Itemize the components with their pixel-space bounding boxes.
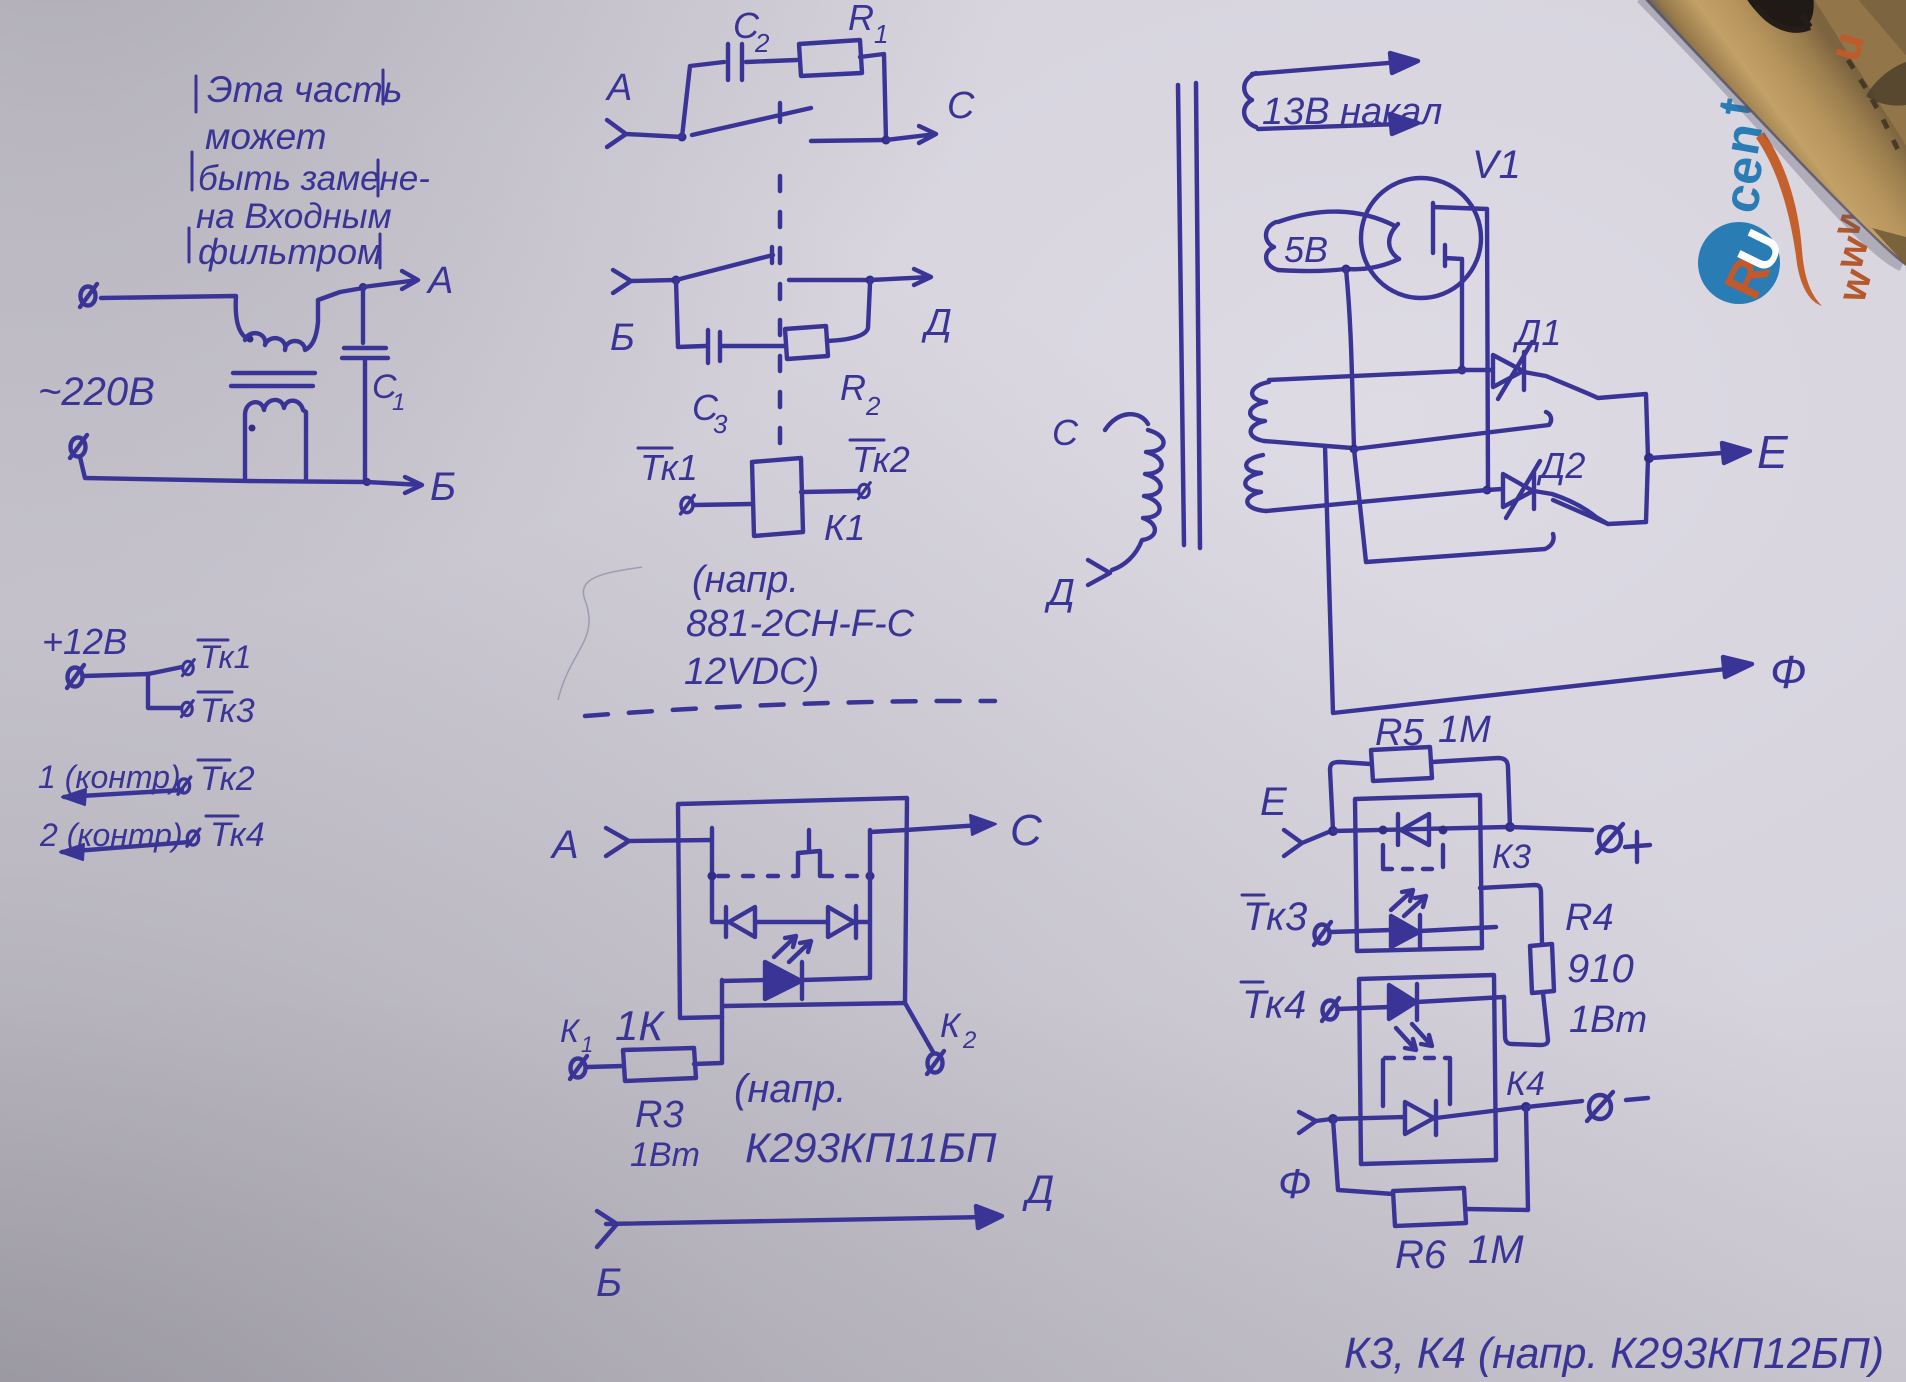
- svg-text:910: 910: [1567, 947, 1634, 991]
- svg-text:V1: V1: [1472, 143, 1521, 187]
- svg-text:Тк1: Тк1: [200, 639, 251, 675]
- svg-text:881-2CH-F-C: 881-2CH-F-C: [686, 603, 915, 645]
- svg-text:1К: 1К: [615, 1002, 665, 1049]
- svg-text:Тк2: Тк2: [200, 760, 255, 798]
- svg-text:Тк3: Тк3: [1243, 895, 1307, 939]
- svg-text:С: С: [1052, 412, 1079, 453]
- svg-text:2: 2: [962, 1027, 976, 1054]
- svg-text:Б: Б: [596, 1261, 622, 1305]
- svg-text:К293КП11БП: К293КП11БП: [745, 1124, 997, 1171]
- svg-text:А: А: [605, 67, 632, 109]
- svg-text:А: А: [550, 823, 579, 867]
- svg-text:2: 2: [865, 391, 881, 421]
- svg-text:12VDC): 12VDC): [684, 651, 819, 693]
- svg-text:Б: Б: [430, 465, 456, 509]
- svg-text:К1: К1: [824, 507, 865, 548]
- svg-text:R: R: [840, 367, 866, 408]
- svg-text:1Вт: 1Вт: [630, 1136, 700, 1174]
- svg-text:2: 2: [754, 28, 770, 58]
- svg-text:быть замене-: быть замене-: [198, 159, 430, 198]
- svg-text:Ф: Ф: [1770, 646, 1807, 698]
- svg-text:К: К: [560, 1013, 581, 1049]
- svg-text:Б: Б: [610, 317, 635, 359]
- svg-text:1: 1: [581, 1032, 593, 1057]
- svg-text:(напр.: (напр.: [692, 559, 799, 601]
- svg-text:Е: Е: [1757, 426, 1789, 478]
- svg-text:3: 3: [713, 409, 728, 439]
- svg-text:Д2: Д2: [1536, 445, 1585, 486]
- svg-text:может: может: [205, 116, 327, 157]
- svg-text:С: С: [947, 85, 975, 127]
- svg-text:5В: 5В: [1284, 229, 1328, 270]
- svg-text:Д: Д: [921, 302, 952, 344]
- svg-text:R6: R6: [1395, 1233, 1447, 1277]
- svg-text:К3: К3: [1492, 838, 1531, 876]
- svg-text:К4: К4: [1506, 1065, 1545, 1103]
- svg-text:1: 1: [874, 19, 888, 49]
- svg-text:R3: R3: [635, 1094, 684, 1136]
- svg-text:фильтром: фильтром: [198, 231, 382, 272]
- svg-text:К: К: [940, 1007, 962, 1045]
- svg-text:Тк3: Тк3: [200, 692, 255, 730]
- svg-text:+12В: +12В: [42, 621, 127, 662]
- svg-text:Тк4: Тк4: [210, 816, 265, 854]
- svg-text:Ф: Ф: [1278, 1160, 1311, 1207]
- svg-text:Тк1: Тк1: [640, 447, 698, 488]
- svg-text:Е: Е: [1260, 780, 1288, 824]
- svg-text:Эта часть: Эта часть: [207, 69, 402, 110]
- svg-text:1Вт: 1Вт: [1569, 999, 1647, 1041]
- svg-text:1: 1: [392, 389, 405, 416]
- svg-text:Тк4: Тк4: [1242, 983, 1306, 1027]
- svg-text:С: С: [1010, 806, 1043, 855]
- svg-text:Д: Д: [1044, 572, 1075, 614]
- svg-text:1М: 1М: [1438, 709, 1491, 751]
- svg-text:R: R: [848, 0, 874, 38]
- svg-text:1М: 1М: [1468, 1228, 1524, 1272]
- svg-text:К3, К4 (напр. К293КП12БП): К3, К4 (напр. К293КП12БП): [1344, 1329, 1884, 1378]
- svg-text:(напр.: (напр.: [734, 1067, 847, 1111]
- svg-text:Д: Д: [1022, 1168, 1054, 1212]
- svg-text:~220В: ~220В: [38, 370, 155, 414]
- svg-text:А: А: [426, 260, 453, 302]
- svg-text:Д1: Д1: [1512, 312, 1561, 353]
- svg-text:R4: R4: [1565, 897, 1614, 939]
- svg-text:Тк2: Тк2: [852, 439, 910, 480]
